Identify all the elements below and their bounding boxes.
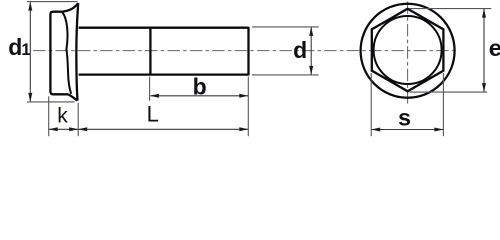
centerline (vertical, end view) bbox=[407, 2, 409, 104]
thread start line bbox=[149, 28, 151, 75]
extension line b/L right bbox=[247, 77, 249, 137]
extension line s right bbox=[442, 73, 444, 136]
end view: chamfer circle (inscribed) bbox=[374, 16, 442, 84]
centerline (bolt axis, runs through side view and end view) bbox=[33, 50, 457, 52]
dimension d1 (flange diameter) bbox=[28, 2, 32, 102]
dimension e (width across corners) bbox=[482, 9, 486, 93]
dimension k (head height) bbox=[49, 127, 78, 131]
svg-text:k: k bbox=[57, 105, 68, 128]
bolt head: hex chamfer arcs (two faces meeting at mid edge) bbox=[62, 12, 71, 94]
bolt head: hex left face and top/bottom edges bbox=[50, 12, 68, 95]
extension line s left bbox=[370, 73, 372, 136]
dimension b (thread length) bbox=[150, 94, 248, 98]
svg-text:s: s bbox=[398, 104, 411, 130]
end view: flange circle bbox=[361, 4, 455, 98]
extension line d bottom bbox=[252, 74, 319, 76]
bolt head: flange rim edge (right silhouette) bbox=[76, 3, 78, 101]
bolt head: flange cone top edge bbox=[62, 3, 78, 12]
svg-text:d1: d1 bbox=[8, 34, 30, 60]
svg-text:e: e bbox=[489, 35, 500, 61]
extension line e bottom bbox=[410, 91, 488, 93]
shank end cap bbox=[247, 27, 249, 76]
shank top edge bbox=[79, 27, 249, 29]
extension line e top bbox=[410, 8, 492, 10]
extension line k right / L left (bearing face) bbox=[77, 103, 79, 136]
shank bottom edge bbox=[79, 73, 249, 75]
extension line b left bbox=[149, 77, 151, 101]
dimension s (width across flats) bbox=[371, 128, 443, 132]
dimension d (shank diameter) bbox=[309, 27, 313, 75]
end view: hexagon bbox=[372, 9, 444, 92]
bolt head: flange cone bottom edge bbox=[68, 94, 78, 100]
svg-text:d: d bbox=[293, 37, 307, 63]
extension line k left bbox=[48, 96, 50, 136]
svg-text:b: b bbox=[193, 73, 207, 99]
extension line d1 bottom bbox=[27, 101, 75, 103]
extension line d1 top bbox=[27, 1, 78, 3]
svg-text:L: L bbox=[147, 102, 159, 127]
extension line d top bbox=[252, 26, 319, 28]
dimension L (bolt length) bbox=[78, 127, 248, 131]
